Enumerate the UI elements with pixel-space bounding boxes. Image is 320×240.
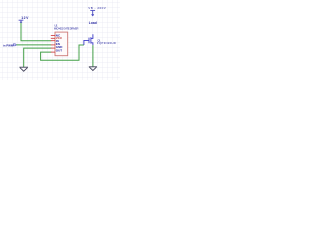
wire OUT net xyxy=(41,45,84,60)
svg-text:VB - 200V: VB - 200V xyxy=(88,6,106,10)
ground left xyxy=(19,67,28,71)
wire source to ground xyxy=(92,45,94,66)
port in PWM xyxy=(13,44,16,46)
IC U1 body xyxy=(55,32,68,56)
svg-text:in PWM: in PWM xyxy=(3,43,14,47)
svg-text:MIC4422 GATE DRIVER: MIC4422 GATE DRIVER xyxy=(54,27,79,31)
wire PWM net xyxy=(16,44,51,46)
ground right xyxy=(89,67,97,71)
power symbol +12V xyxy=(19,20,24,23)
svg-text:OUT: OUT xyxy=(56,49,63,53)
wire GND net left xyxy=(24,48,52,67)
pin stubs U1 xyxy=(51,36,55,53)
transistor Q1 xyxy=(84,34,93,45)
svg-text:FQP3N20HD: FQP3N20HD xyxy=(97,41,116,45)
wire 12V net xyxy=(21,23,51,41)
power symbol VB -200V xyxy=(90,10,95,15)
svg-text:Load: Load xyxy=(89,21,97,25)
svg-text:12V: 12V xyxy=(21,16,29,20)
